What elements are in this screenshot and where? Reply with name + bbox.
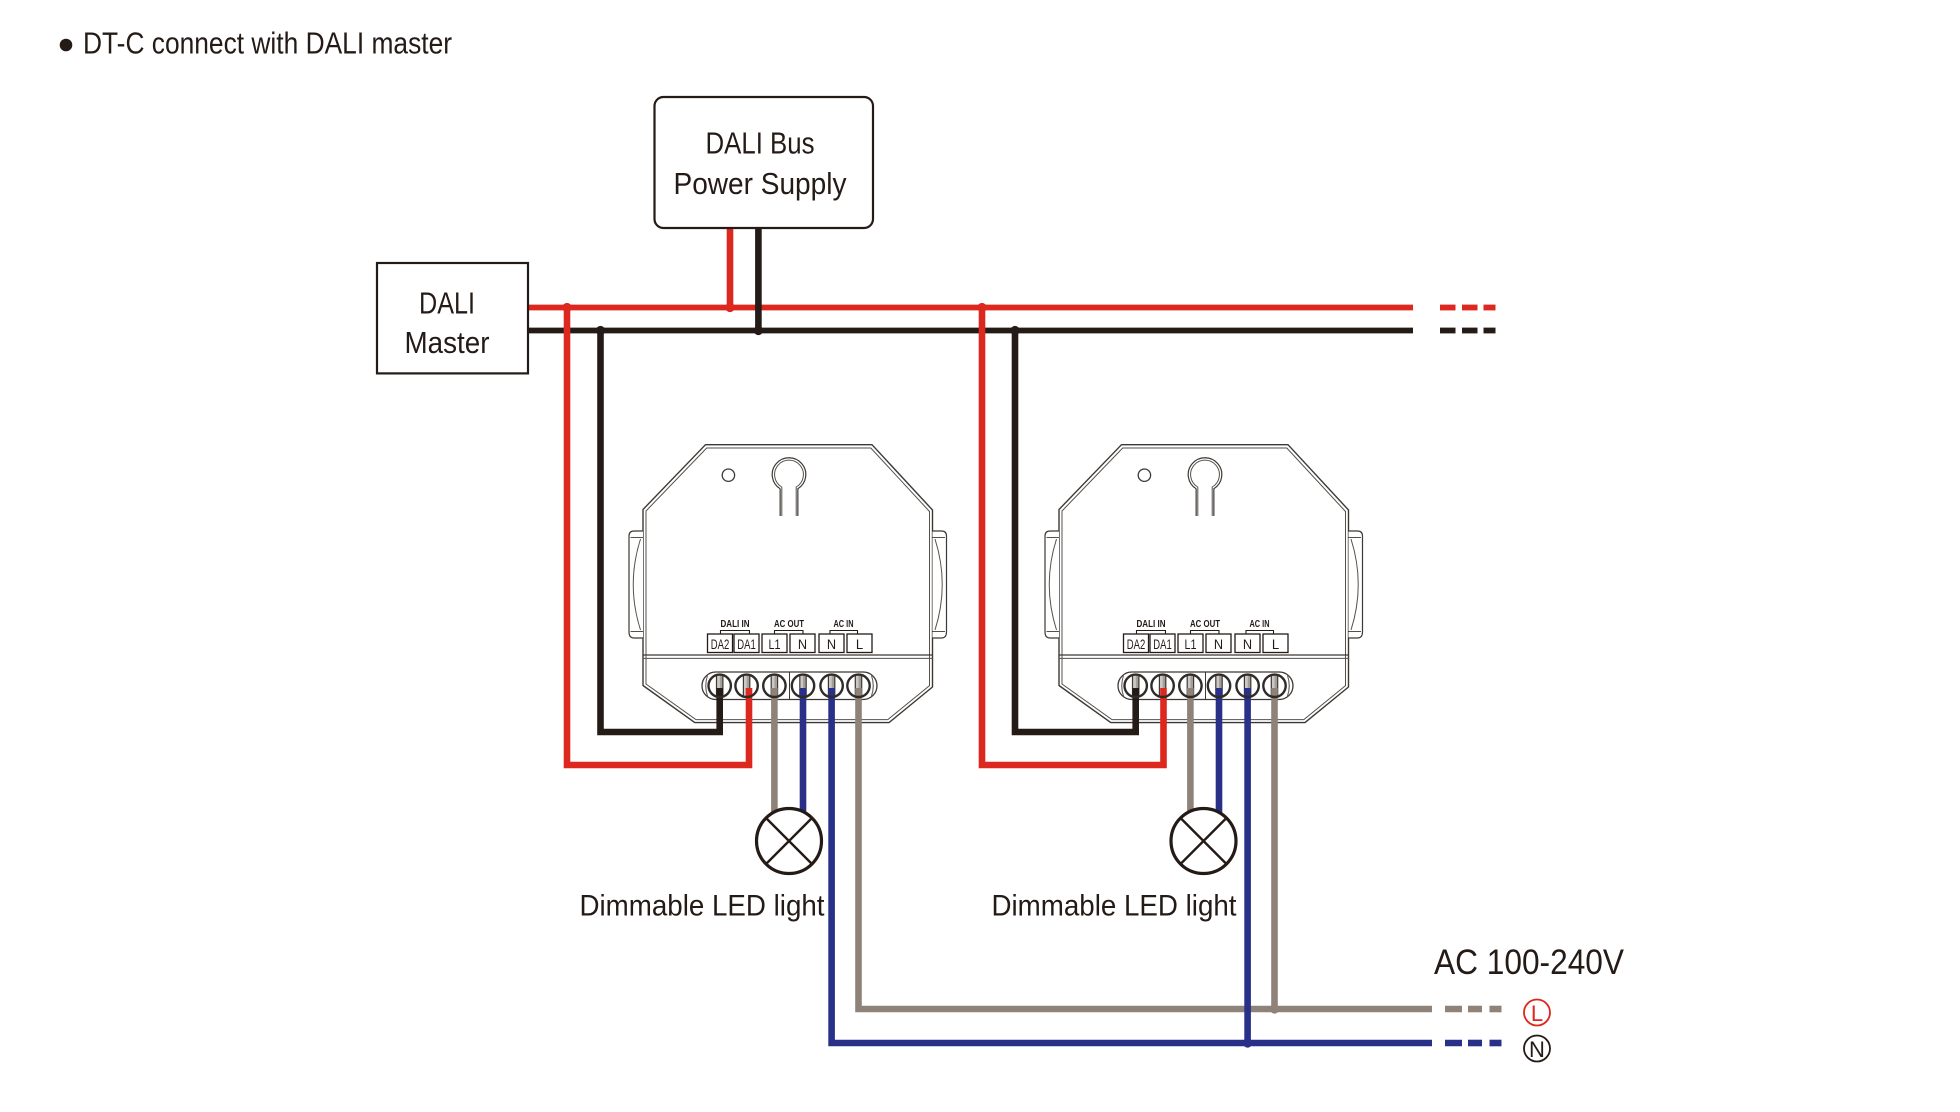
svg-text:DA1: DA1 — [1153, 637, 1172, 652]
dimmer V2 terminal label DA2 — [1124, 634, 1149, 653]
wire: V2 AC OUT N to lamp EL2 (blue) — [1216, 688, 1223, 815]
svg-text:Dimmable LED light: Dimmable LED light — [992, 890, 1238, 923]
dimmer V2 right mounting ear — [1349, 531, 1363, 638]
node: mains L junction (gray) — [1270, 1004, 1279, 1013]
svg-text:L: L — [1272, 637, 1280, 652]
svg-text:Dimmable LED light: Dimmable LED light — [580, 890, 826, 923]
dimmer V1 body — [643, 445, 933, 723]
svg-text:N: N — [798, 637, 807, 652]
svg-text:AC 100-240V: AC 100-240V — [1434, 943, 1625, 982]
dimmer V1 screw terminal rings — [709, 675, 870, 697]
svg-text:DA1: DA1 — [737, 637, 756, 652]
black bus dashed continuation — [1440, 328, 1496, 334]
dimmer V2 LED indicator — [1138, 469, 1150, 481]
dimmer V1 terminal label N — [790, 634, 815, 653]
dimmer V1 terminal label L1 — [762, 634, 787, 653]
wire: V1 AC OUT N to lamp EL1 (blue) — [800, 688, 807, 815]
svg-text:AC OUT: AC OUT — [774, 618, 804, 630]
dimmer V1 label AC OUT — [774, 618, 804, 634]
wire: V2 AC IN N to mains N (blue) — [1244, 688, 1251, 1043]
svg-text:DA2: DA2 — [1127, 637, 1146, 652]
wire: V1 L1 to lamp EL1 (gray) — [771, 688, 778, 813]
dimmer V1 label DALI IN — [721, 618, 750, 634]
dimmer V2 terminal block — [1118, 672, 1293, 700]
mains L dashed continuation (gray) — [1445, 1006, 1502, 1013]
svg-text:N: N — [827, 637, 836, 652]
wire: V2 AC IN L to mains L (gray) — [1271, 688, 1278, 1009]
mains N dashed continuation (blue) — [1445, 1040, 1502, 1047]
svg-text:DA2: DA2 — [711, 637, 730, 652]
svg-text:N: N — [1243, 637, 1252, 652]
svg-text:L1: L1 — [769, 637, 781, 652]
dimmer V1 terminal block — [702, 672, 877, 700]
DALI Master box — [377, 263, 528, 373]
node: red bus / V1 feeder junction — [562, 303, 571, 312]
lamp EL2 (dimmable LED light, right) — [1171, 809, 1236, 874]
svg-text:Power Supply: Power Supply — [674, 166, 847, 201]
dimmer V1 right mounting ear — [933, 531, 947, 638]
wire: DALI- black bus — [528, 328, 1413, 334]
svg-text:DT-C connect with DALI master: DT-C connect with DALI master — [83, 25, 452, 60]
dimmer V1 LED indicator — [722, 469, 734, 481]
dimmer V1 keyhole mount — [772, 458, 806, 516]
dimmer V1 label AC IN — [830, 618, 858, 634]
dimmer V2 keyhole mount — [1188, 458, 1222, 516]
svg-text:DALI: DALI — [419, 285, 475, 320]
wire: power supply DA- (black) — [755, 228, 762, 331]
wire: power supply DA+ (red) — [727, 228, 734, 308]
dimmer V1 terminal label DA1 — [734, 634, 759, 653]
svg-text:L: L — [1531, 1001, 1543, 1026]
red bus dashed continuation — [1440, 305, 1496, 311]
svg-text:DALI IN: DALI IN — [1137, 618, 1166, 630]
svg-text:AC IN: AC IN — [834, 618, 854, 630]
svg-text:N: N — [1214, 637, 1223, 652]
dimmer V1 terminal label L — [847, 634, 872, 653]
svg-text:L: L — [856, 637, 864, 652]
dimmer V1 left mounting ear — [629, 531, 643, 638]
svg-text:DALI IN: DALI IN — [721, 618, 750, 630]
node: black bus / V2 feeder junction — [1010, 326, 1019, 335]
dimmer V2 terminal label L1 — [1178, 634, 1203, 653]
wire: DALI- bus to dimmer V1 DA2 (black) — [601, 331, 720, 733]
node: red bus / power supply junction — [725, 303, 734, 312]
dimmer V2 label DALI IN — [1137, 618, 1166, 634]
svg-text:Master: Master — [405, 325, 490, 360]
dimmer V2 panel separator — [1059, 655, 1349, 658]
node: red bus / V2 feeder junction — [977, 303, 986, 312]
svg-text:L1: L1 — [1185, 637, 1197, 652]
lamp EL1 (dimmable LED light, left) — [757, 809, 822, 874]
dimmer V1 screw terminals — [708, 674, 870, 697]
wire: DALI+ bus to dimmer V1 DA1 (red) — [567, 308, 749, 766]
dimmer V2 screw terminal rings — [1125, 675, 1286, 697]
mains terminal N — [1524, 1036, 1550, 1062]
dimmer V2 body — [1059, 445, 1349, 723]
mains terminal L — [1524, 1000, 1550, 1026]
DALI Bus Power Supply box — [655, 97, 874, 228]
node: black bus / power supply junction — [754, 326, 763, 335]
title bullet — [60, 39, 73, 52]
wire: DALI+ bus to dimmer V2 DA1 (red) — [982, 308, 1164, 766]
dimmer V2 label AC IN — [1246, 618, 1274, 634]
svg-text:AC IN: AC IN — [1250, 618, 1270, 630]
dimmer V2 screw terminals — [1124, 674, 1286, 697]
svg-text:DALI Bus: DALI Bus — [706, 125, 815, 160]
wire: V1 AC IN N to mains N (blue) — [832, 688, 1432, 1043]
node: black bus / V1 feeder junction — [596, 326, 605, 335]
dimmer V1 terminal label N — [819, 634, 844, 653]
wire: V2 L1 to lamp EL2 (gray) — [1187, 688, 1194, 813]
dimmer V1 panel separator — [643, 655, 933, 658]
wire: V1 AC IN L to mains L (gray) — [859, 688, 1433, 1009]
wire: DALI+ red bus — [528, 305, 1413, 311]
dimmer V2 left mounting ear — [1045, 531, 1059, 638]
wire: DALI- bus to dimmer V2 DA2 (black) — [1015, 331, 1136, 733]
dimmer V2 terminal label L — [1263, 634, 1288, 653]
node: mains N junction (blue) — [1243, 1038, 1252, 1047]
dimmer V2 terminal label N — [1235, 634, 1260, 653]
dimmer V2 label AC OUT — [1190, 618, 1220, 634]
dimmer V1 terminal label DA2 — [708, 634, 733, 653]
dimmer V2 terminal label N — [1206, 634, 1231, 653]
dimmer V2 terminal label DA1 — [1150, 634, 1175, 653]
svg-text:N: N — [1529, 1037, 1545, 1062]
svg-text:AC OUT: AC OUT — [1190, 618, 1220, 630]
